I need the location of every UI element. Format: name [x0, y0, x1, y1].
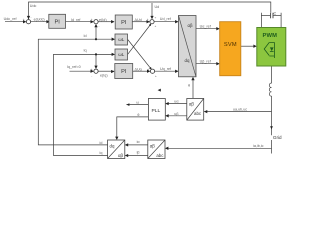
- svg-text:+: +: [91, 67, 93, 71]
- svg-text:Ud_ref: Ud_ref: [160, 17, 172, 21]
- svg-text:+: +: [155, 74, 157, 78]
- svg-text:dq: dq: [110, 144, 115, 149]
- svg-text:ωL: ωL: [118, 52, 125, 57]
- svg-text:Uβ_ref: Uβ_ref: [200, 60, 212, 64]
- svg-text:ω: ω: [136, 100, 139, 104]
- svg-text:+: +: [155, 15, 157, 19]
- svg-text:uβ: uβ: [174, 112, 178, 116]
- svg-text:ωL: ωL: [118, 37, 125, 42]
- svg-text:Iq: Iq: [84, 49, 87, 53]
- svg-text:+: +: [147, 67, 149, 71]
- svg-text:Id_ref: Id_ref: [71, 18, 81, 22]
- svg-text:ΔUd: ΔUd: [135, 18, 142, 22]
- svg-text:+: +: [147, 17, 149, 21]
- svg-text:e(Iq): e(Iq): [100, 73, 108, 77]
- svg-text:Uq_ref: Uq_ref: [160, 67, 172, 71]
- svg-text:e(Id): e(Id): [99, 18, 107, 22]
- svg-text:Grid: Grid: [273, 135, 282, 140]
- svg-text:uα: uα: [174, 100, 179, 104]
- svg-text:id: id: [100, 141, 103, 145]
- svg-text:ia,ib,ic: ia,ib,ic: [253, 144, 264, 148]
- svg-text:abc: abc: [156, 153, 164, 158]
- svg-text:αβ: αβ: [118, 153, 124, 158]
- svg-text:iq: iq: [100, 151, 103, 155]
- svg-text:Uα_ref: Uα_ref: [200, 24, 212, 28]
- svg-text:+: +: [23, 17, 25, 21]
- svg-text:θ: θ: [137, 113, 139, 117]
- svg-text:PI: PI: [55, 19, 61, 25]
- svg-text:ΔUq: ΔUq: [135, 67, 142, 71]
- svg-text:Ud: Ud: [155, 5, 160, 9]
- svg-text:dq: dq: [185, 58, 190, 63]
- svg-text:θ: θ: [188, 83, 190, 87]
- svg-text:-: -: [91, 74, 92, 78]
- svg-text:PI: PI: [121, 20, 127, 26]
- svg-text:PI: PI: [121, 69, 127, 75]
- svg-text:αβ: αβ: [187, 23, 193, 28]
- svg-text:ua,ub,uc: ua,ub,uc: [233, 107, 247, 111]
- svg-text:-: -: [31, 16, 32, 20]
- svg-text:SVM: SVM: [224, 42, 237, 48]
- svg-text:PLL: PLL: [152, 108, 161, 114]
- svg-text:iβ: iβ: [137, 151, 140, 155]
- svg-text:abc: abc: [194, 111, 202, 116]
- svg-text:-: -: [99, 24, 100, 28]
- svg-text:+: +: [91, 17, 93, 21]
- svg-text:Udc_ref: Udc_ref: [4, 17, 18, 21]
- svg-text:+: +: [155, 24, 157, 28]
- svg-text:C: C: [274, 12, 277, 16]
- svg-text:Udc: Udc: [30, 4, 37, 8]
- svg-text:αβ: αβ: [150, 144, 156, 149]
- svg-text:e(Udc): e(Udc): [34, 18, 45, 22]
- svg-text:iα: iα: [137, 140, 141, 144]
- svg-text:Iq_ref=0: Iq_ref=0: [67, 65, 81, 69]
- svg-text:Id: Id: [84, 34, 87, 38]
- svg-text:αβ: αβ: [189, 102, 195, 107]
- svg-text:PWM: PWM: [262, 33, 277, 39]
